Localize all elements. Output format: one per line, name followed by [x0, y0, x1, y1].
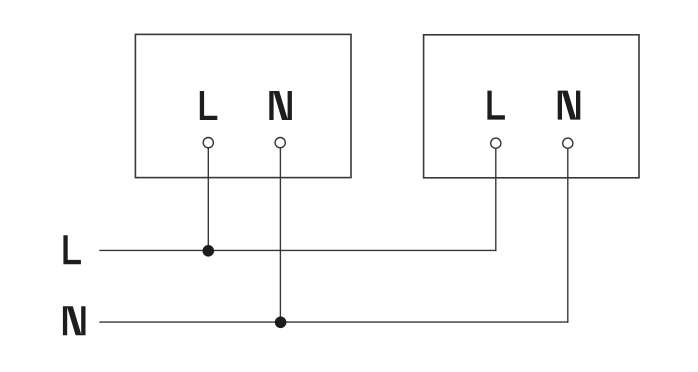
label N (supply line): [63, 306, 86, 335]
label L (box 2 terminal L): [487, 91, 505, 120]
terminal circle box2 N: [563, 138, 573, 148]
terminal circle box2 L: [491, 138, 501, 148]
wire box1 N terminal down to N line: [279, 148, 281, 322]
L supply line (horizontal): [99, 249, 496, 251]
label L (box 1 terminal L): [200, 91, 218, 120]
label L (supply line): [63, 235, 81, 264]
device box 1: [135, 34, 351, 177]
wire box2 L terminal down to L line: [495, 148, 497, 251]
wire box2 N terminal down to N line: [567, 148, 569, 322]
label N (box 1 terminal N): [269, 91, 292, 120]
junction dot on N line: [275, 317, 287, 329]
terminal circle box1 N: [275, 138, 285, 148]
N supply line (horizontal): [99, 321, 568, 323]
wire box1 L terminal down to L line: [207, 148, 209, 251]
terminal circle box1 L: [203, 138, 213, 148]
device box 2: [424, 35, 639, 178]
junction dot on L line: [203, 245, 215, 257]
label N (box 2 terminal N): [558, 91, 581, 120]
